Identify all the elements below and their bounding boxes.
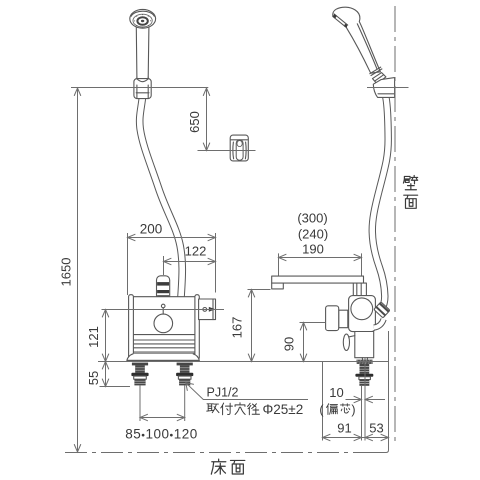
right faucet valve body (349, 296, 376, 361)
floor line (dash-dot) (65, 452, 388, 454)
dimension 200 (128, 233, 216, 295)
svg-text:190: 190 (302, 241, 324, 256)
right faucet drain lever (343, 334, 355, 350)
dimension 190 (279, 253, 362, 275)
left shower head (front view) (130, 9, 156, 28)
dimension 650 (198, 88, 256, 151)
alternate hanger bracket icon (230, 135, 248, 161)
right shower wall bracket (side view) (373, 78, 394, 98)
dimension 121 (102, 310, 108, 362)
left shower hose (140, 97, 183, 297)
svg-text:PJ1/2: PJ1/2 (207, 386, 239, 400)
svg-text:(300): (300) (297, 210, 327, 225)
svg-text:1650: 1650 (59, 258, 74, 287)
left shower handle (136, 27, 149, 77)
deck line (98, 361, 389, 363)
left faucet top hose connector (157, 276, 170, 300)
dimension 1650 (74, 88, 80, 452)
right faucet temperature knob (side view) (326, 306, 348, 331)
right shower hose connector cone (373, 73, 386, 84)
svg-text:90: 90 (282, 337, 297, 351)
svg-text:Φ25±2: Φ25±2 (263, 402, 304, 417)
dimension 122 (164, 256, 216, 275)
label (henshin) eccentric (319, 403, 355, 417)
dimension 10 (eccentric) (346, 357, 386, 441)
hanger height reference line left (71, 87, 208, 89)
svg-text:53: 53 (369, 421, 383, 436)
svg-text:91: 91 (337, 421, 351, 436)
svg-text:650: 650 (187, 111, 202, 133)
left faucet leg 1 (131, 363, 148, 421)
right faucet hose elbow connector (374, 302, 390, 328)
left faucet body (front view) (127, 295, 199, 361)
svg-text:(240): (240) (298, 226, 328, 241)
right shower head (side view) (333, 7, 381, 73)
svg-text:200: 200 (140, 221, 163, 236)
left faucet shower outlet (right side) (199, 299, 216, 320)
right faucet dial circle (351, 298, 373, 320)
label mounting hole dia 25±2 (207, 402, 303, 417)
dimension 167 (248, 290, 271, 362)
dimension 85 100 120 (140, 414, 185, 420)
right shower hose (372, 96, 388, 309)
right faucet spout nut (353, 283, 366, 296)
left faucet dial (154, 304, 173, 333)
svg-text:121: 121 (86, 326, 101, 348)
wall/ledge solid line (370, 331, 389, 453)
svg-text:10: 10 (329, 385, 343, 400)
right shower handle grip band (370, 67, 382, 75)
svg-text:85•100•120: 85•100•120 (125, 427, 197, 442)
svg-text:167: 167 (230, 317, 245, 339)
label floor surface (211, 459, 245, 474)
right faucet deck leg (355, 360, 373, 386)
hanger height reference line right (367, 87, 409, 89)
outlet center reference line (102, 309, 225, 311)
dimension 90 (300, 323, 326, 362)
wall center line (dash-dot) (394, 6, 396, 446)
right faucet spout (272, 276, 364, 289)
label wall surface (403, 176, 417, 209)
svg-text:122: 122 (185, 243, 207, 258)
svg-text:55: 55 (86, 371, 101, 385)
left shower wall bracket (front view) (134, 77, 151, 99)
PJ1/2 leader line (186, 383, 308, 400)
svg-text:): ) (351, 403, 355, 417)
dimension 91 and 53 (323, 362, 389, 441)
dimension 55 (100, 362, 131, 387)
left faucet leg 2 (176, 363, 193, 421)
svg-text:(: ( (319, 403, 324, 417)
